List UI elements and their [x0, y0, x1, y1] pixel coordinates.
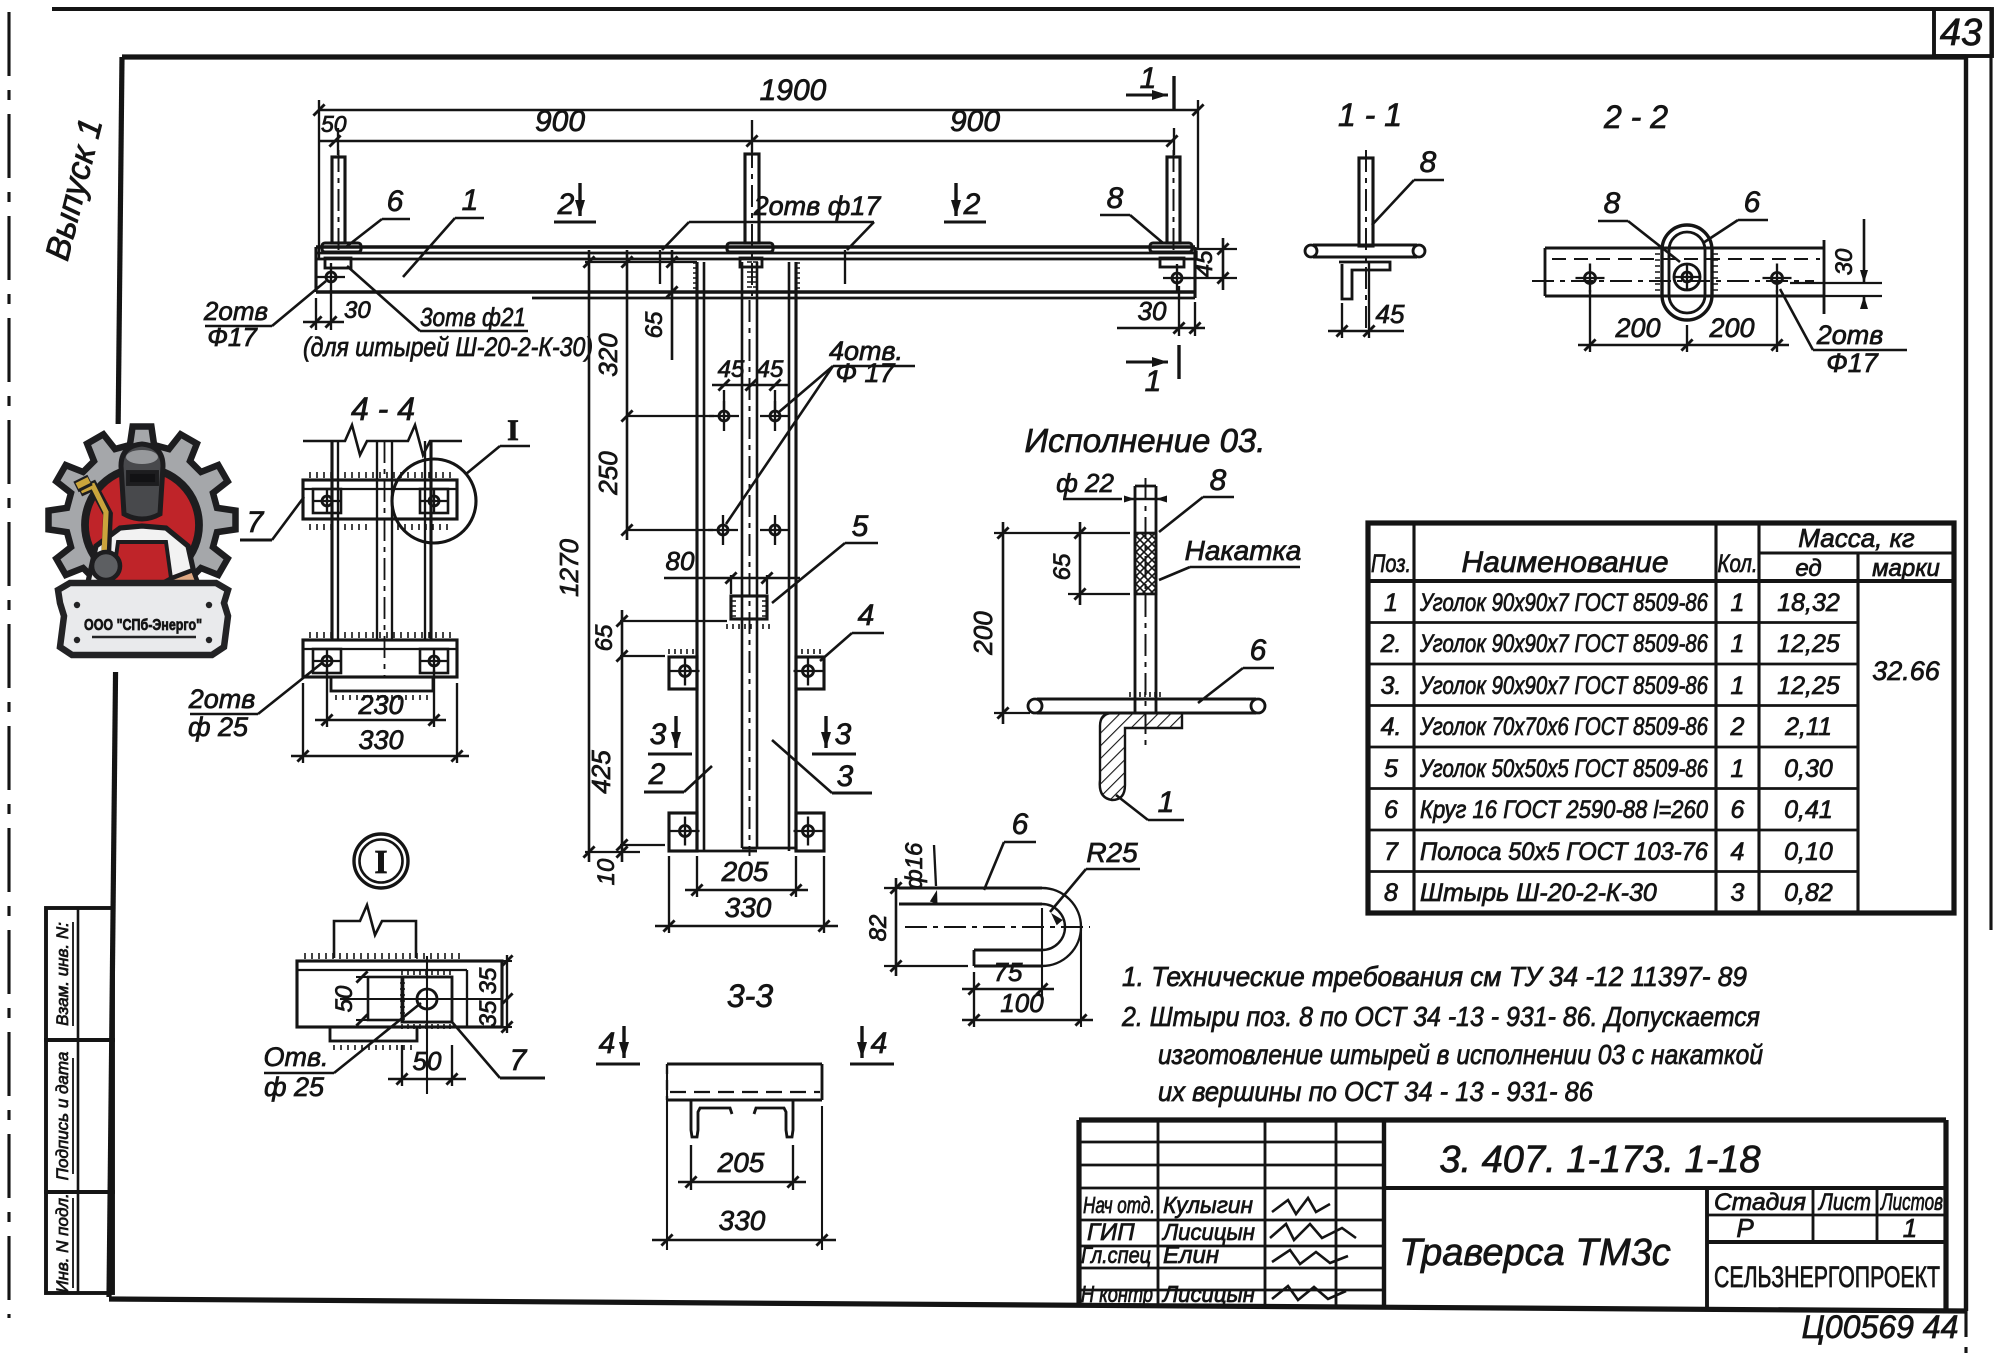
svg-text:82: 82: [865, 915, 892, 942]
dimension 330 (3-3): [666, 1070, 668, 1250]
tab right bottom: [796, 813, 824, 851]
column left angle (poz.2) verticals: [695, 262, 698, 851]
svg-text:32.66: 32.66: [1872, 656, 1941, 686]
dimension 900 left: [319, 140, 1172, 143]
dimension 200 200 (2-2): [1589, 290, 1591, 352]
svg-text:1: 1: [1145, 365, 1162, 398]
detail I left square: [368, 977, 403, 1020]
svg-text:Масса, кг: Масса, кг: [1798, 523, 1915, 553]
svg-text:900: 900: [950, 105, 1000, 138]
svg-text:1: 1: [1384, 589, 1398, 617]
holes 4otv f17 upper pair: [719, 411, 729, 421]
title block frame: [1079, 1117, 1946, 1122]
svg-text:2отв: 2отв: [1816, 320, 1884, 350]
pin (poz.8) middle: [745, 154, 759, 243]
svg-text:ф 22: ф 22: [1056, 468, 1114, 498]
section marker 4 right: [860, 1026, 863, 1058]
hole 2otv f17 left: [326, 272, 336, 282]
detail I dim 50 bottom: [401, 1045, 403, 1086]
svg-text:СЕЛЬЗНЕРГОПРОЕКТ: СЕЛЬЗНЕРГОПРОЕКТ: [1714, 1261, 1940, 1294]
dimension 330 column: [668, 856, 670, 933]
svg-text:12,25: 12,25: [1777, 630, 1840, 658]
svg-text:3: 3: [1731, 879, 1745, 907]
logo welder apron: [110, 542, 174, 600]
sheet outer border top: [52, 7, 1991, 11]
detail I lower tab: [330, 1027, 417, 1041]
hook bend: [1042, 888, 1081, 966]
4-4 upper bolt squares: [313, 489, 341, 513]
svg-text:1. Технические требования: 1. Технические требования см ТУ 34 -12 1…: [1122, 961, 1747, 992]
svg-text:Ф 17: Ф 17: [836, 358, 896, 388]
section marker 3 right: [824, 716, 827, 748]
2-2 center hole: [1674, 264, 1700, 290]
svg-text:Ф17: Ф17: [1826, 348, 1878, 378]
svg-text:6: 6: [1012, 808, 1029, 841]
svg-text:65: 65: [1049, 553, 1076, 580]
svg-text:ед: ед: [1795, 555, 1821, 582]
logo welder glove: [92, 552, 120, 580]
sheet outer border left (dash): [7, 12, 10, 1318]
svg-text:35: 35: [475, 967, 502, 994]
page number box: [1934, 9, 1992, 56]
2-2 weld serrations at keeper: [1655, 248, 1660, 290]
svg-text:1: 1: [1158, 786, 1175, 819]
1-1 rod bar: [1313, 243, 1417, 246]
svg-text:12,25: 12,25: [1777, 672, 1840, 700]
svg-text:230: 230: [357, 690, 403, 720]
svg-text:Кол.: Кол.: [1718, 550, 1758, 578]
3-3 strip plate: [667, 1062, 822, 1065]
svg-text:30: 30: [344, 297, 371, 324]
4-4 upper band (strip poz.7): [303, 480, 457, 519]
svg-text:6: 6: [1731, 796, 1745, 824]
title block left grid: [1079, 1141, 1384, 1144]
svg-text:0,41: 0,41: [1784, 796, 1833, 824]
drawing frame right: [1964, 57, 1968, 1311]
svg-text:их вершины по ОСТ 34 -: их вершины по ОСТ 34 - 13 - 931- 86: [1158, 1076, 1593, 1107]
sheet outer border right: [1989, 9, 1992, 930]
svg-text:1: 1: [1731, 672, 1745, 700]
svg-text:75: 75: [994, 957, 1023, 987]
svg-text:Кулыгин: Кулыгин: [1163, 1192, 1253, 1218]
svg-text:7: 7: [247, 506, 265, 539]
svg-text:4: 4: [1731, 838, 1745, 866]
hole f17 right: [1172, 273, 1182, 283]
dimension 30 beam right: [1178, 286, 1180, 336]
logo welder shirt: [84, 526, 200, 600]
svg-text:200: 200: [1708, 313, 1754, 343]
svg-text:1: 1: [1731, 755, 1745, 783]
svg-text:Листов: Листов: [1880, 1189, 1943, 1216]
plate poz.5 on column: [731, 596, 767, 619]
dimension chain line 320/250: [626, 250, 629, 540]
svg-text:Уголок 70х70х6 ГОСТ 8509-86: Уголок 70х70х6 ГОСТ 8509-86: [1419, 713, 1708, 741]
svg-text:ф16: ф16: [901, 842, 928, 889]
margin box Podpis i data: [46, 1040, 113, 1192]
svg-text:Наименование: Наименование: [1461, 546, 1668, 579]
03 rod bar (poz.6): [1037, 697, 1256, 700]
parts table frame: [1368, 523, 1954, 913]
svg-text:Ц00569 44: Ц00569 44: [1802, 1309, 1959, 1345]
03 angle cross-section (poz.1): [1100, 713, 1182, 800]
svg-text:2.: 2.: [1380, 630, 1402, 658]
3-3 left leg: [691, 1100, 732, 1137]
column right angle (poz.3) verticals: [788, 262, 791, 851]
svg-text:80: 80: [666, 546, 695, 576]
svg-text:10: 10: [593, 858, 620, 885]
dim 65 (03): [1068, 532, 1130, 534]
svg-text:8: 8: [1210, 464, 1227, 497]
svg-text:Поз.: Поз.: [1371, 550, 1411, 578]
svg-text:1: 1: [1903, 1213, 1917, 1243]
dimension 205 (3-3): [690, 1145, 692, 1190]
dimension 1270: [588, 250, 591, 862]
1-1 angle profile: [1339, 262, 1390, 299]
svg-text:30: 30: [1138, 296, 1167, 326]
4-4 middle pin: [376, 441, 378, 640]
svg-text:3: 3: [837, 760, 854, 793]
4-4 lower bolt squares: [313, 649, 341, 673]
dim 100 (hook): [973, 996, 975, 1027]
2-2 side holes: [1585, 273, 1596, 284]
svg-text:2: 2: [648, 758, 666, 791]
pin (poz.8) right: [1167, 157, 1180, 243]
dimension chain line 65/425/10 lower: [621, 610, 624, 862]
svg-text:Накатка: Накатка: [1185, 535, 1302, 566]
svg-text:ф 25: ф 25: [264, 1072, 325, 1102]
03 knurl section: [1135, 533, 1156, 594]
crossarm beam ends: [314, 247, 317, 292]
svg-text:Нач отд.: Нач отд.: [1083, 1192, 1155, 1218]
logo welder helmet: [121, 444, 163, 519]
svg-text:6: 6: [1744, 186, 1761, 219]
svg-text:Полоса 50х5 ГОСТ 103-76: Полоса 50х5 ГОСТ 103-76: [1420, 838, 1708, 866]
dimension 45 (1-1): [1341, 303, 1343, 338]
svg-text:Гл.спец: Гл.спец: [1081, 1242, 1151, 1268]
svg-text:65: 65: [591, 624, 618, 651]
svg-text:330: 330: [719, 1205, 766, 1236]
svg-text:1: 1: [1731, 630, 1745, 658]
svg-text:Уголок 90х90х7 ГОСТ 8509-86: Уголок 90х90х7 ГОСТ 8509-86: [1419, 672, 1708, 700]
svg-text:8: 8: [1604, 187, 1621, 220]
svg-text:3.: 3.: [1381, 672, 1402, 700]
2-2 keeper oval (poz.6): [1662, 225, 1712, 320]
svg-text:2отв: 2отв: [188, 684, 256, 714]
dimension 45 beam right: [1195, 248, 1237, 250]
svg-text:1270: 1270: [554, 539, 584, 597]
svg-text:0,82: 0,82: [1784, 879, 1833, 907]
detail I weld serration top: [305, 953, 459, 959]
detail I bubble: [354, 834, 408, 888]
svg-text:6: 6: [387, 185, 404, 218]
title block doc number cell: [1384, 1186, 1946, 1190]
svg-text:марки: марки: [1872, 555, 1940, 582]
holes 4otv f17 lower pair: [718, 525, 728, 535]
svg-text:1: 1: [1731, 589, 1745, 617]
svg-text:35: 35: [475, 1000, 502, 1027]
drawing frame bottom: [109, 1299, 1966, 1311]
svg-text:Лисицын: Лисицын: [1161, 1281, 1255, 1307]
detail I break rectangle: [334, 905, 416, 958]
svg-text:Траверса ТМ3с: Траверса ТМ3с: [1399, 1232, 1671, 1274]
svg-text:3-3: 3-3: [727, 978, 773, 1014]
svg-text:45: 45: [1191, 250, 1218, 277]
section marker 1 bottom: [1126, 360, 1168, 363]
svg-text:Лист: Лист: [1817, 1189, 1871, 1216]
svg-text:50: 50: [321, 111, 347, 137]
svg-text:6: 6: [1250, 634, 1267, 667]
svg-text:Инв. N подл.: Инв. N подл.: [53, 1193, 72, 1292]
dim 82 (hook): [884, 887, 899, 889]
column middle pin shaft: [741, 262, 744, 848]
svg-text:50: 50: [413, 1046, 442, 1076]
4-4 lower band (strip poz.7): [303, 640, 457, 677]
drawing frame top: [122, 54, 1966, 59]
1-1 pin poz.8: [1359, 158, 1373, 246]
svg-text:(для штырей Ш-20-2-К-30): (для штырей Ш-20-2-К-30): [303, 332, 593, 362]
svg-text:Исполнение 03.: Исполнение 03.: [1025, 422, 1266, 459]
svg-text:2отв ф17: 2отв ф17: [753, 191, 882, 221]
svg-text:2,11: 2,11: [1784, 713, 1832, 741]
svg-text:5: 5: [852, 510, 869, 543]
4-4 break line top: [303, 425, 462, 455]
svg-text:330: 330: [358, 725, 403, 755]
logo name plate: [58, 583, 228, 655]
drawing frame right lower dash: [1964, 1311, 1967, 1363]
svg-text:65: 65: [641, 311, 668, 338]
svg-text:3: 3: [650, 718, 667, 751]
extension lines beam dims: [318, 100, 320, 258]
tab left bottom: [669, 813, 697, 851]
svg-text:45: 45: [718, 356, 745, 383]
svg-text:425: 425: [586, 750, 616, 794]
svg-text:Круг 16 ГОСТ 2590-88 l=260: Круг 16 ГОСТ 2590-88 l=260: [1420, 796, 1708, 824]
svg-text:Штырь Ш-20-2-К-30: Штырь Ш-20-2-К-30: [1420, 879, 1657, 907]
logo white backing: [95, 424, 245, 672]
svg-text:1: 1: [462, 184, 479, 217]
detail I circle on 4-4: [392, 459, 476, 543]
svg-text:3отв ф21: 3отв ф21: [420, 302, 526, 332]
svg-text:330: 330: [725, 892, 772, 923]
svg-text:Отв.: Отв.: [263, 1042, 328, 1072]
4-4 rails: [330, 441, 333, 640]
dimension 65 top (column): [671, 250, 674, 360]
svg-text:0,30: 0,30: [1784, 755, 1833, 783]
svg-text:100: 100: [1000, 988, 1044, 1018]
svg-text:900: 900: [535, 105, 585, 138]
tab poz.4 right mid: [796, 657, 824, 689]
svg-text:1: 1: [1140, 62, 1157, 95]
svg-text:4: 4: [871, 1027, 888, 1060]
logo gear: [49, 427, 236, 614]
svg-text:3. 407. 1-173. 1-18: 3. 407. 1-173. 1-18: [1439, 1139, 1760, 1181]
svg-text:Н контр: Н контр: [1081, 1281, 1153, 1307]
section marker 2 left: [578, 183, 581, 216]
column bottom edge: [697, 850, 757, 853]
svg-text:2: 2: [557, 188, 575, 221]
dim 75 (hook): [973, 972, 975, 996]
margin box Vzam inv N: [46, 908, 113, 1040]
svg-text:2. Штыри поз. 8 по ОСТ 34: 2. Штыри поз. 8 по ОСТ 34 -13 - 931- 86.…: [1121, 1001, 1760, 1032]
2-2 strip body: [1545, 246, 1824, 249]
detail I strip plan: [297, 961, 502, 1027]
svg-text:ООО "СПб-Энерго": ООО "СПб-Энерго": [84, 617, 202, 634]
svg-text:45: 45: [757, 356, 784, 383]
svg-text:205: 205: [717, 1147, 765, 1178]
dimension 30 (2-2): [1790, 282, 1882, 284]
svg-text:4.: 4.: [1381, 713, 1402, 741]
svg-text:200: 200: [968, 611, 998, 656]
svg-text:1900: 1900: [760, 74, 827, 107]
dimension 330 (4-4): [302, 683, 304, 763]
hook top tube: [899, 886, 1042, 889]
svg-text:2: 2: [963, 188, 981, 221]
svg-text:Взам. инв. N:: Взам. инв. N:: [53, 922, 72, 1026]
section marker 2 right: [954, 183, 957, 216]
svg-text:18,32: 18,32: [1777, 589, 1840, 617]
detail I gusset square: [402, 977, 452, 1022]
svg-text:2 - 2: 2 - 2: [1603, 99, 1668, 135]
column weld serrations top: [693, 263, 698, 288]
logo welding torch: [80, 486, 108, 560]
svg-text:43: 43: [1940, 12, 1982, 54]
svg-text:4: 4: [599, 1027, 616, 1060]
title block stadia list cells: [1707, 1214, 1946, 1217]
svg-text:320: 320: [593, 333, 623, 377]
3-3 right leg: [754, 1100, 793, 1137]
hook bottom tube: [974, 948, 1042, 951]
svg-text:Елин: Елин: [1163, 1242, 1219, 1269]
hook centerlines: [905, 926, 1090, 928]
svg-text:45: 45: [1376, 299, 1405, 329]
title block name cell: [1705, 1188, 1709, 1309]
logo welder forearm: [120, 570, 200, 612]
tab poz.4 left mid: [669, 657, 697, 689]
logo red circle: [85, 468, 199, 582]
svg-text:3: 3: [835, 718, 852, 751]
03 pin shaft: [1134, 486, 1137, 713]
svg-text:4 - 4: 4 - 4: [351, 391, 415, 427]
svg-text:4: 4: [858, 599, 875, 632]
svg-text:8: 8: [1107, 182, 1124, 215]
pin (poz.8) left: [332, 157, 345, 243]
svg-text:250: 250: [593, 451, 623, 496]
4-4 bottom tab: [331, 677, 433, 691]
svg-text:Уголок 50х50х5 ГОСТ 8509-86: Уголок 50х50х5 ГОСТ 8509-86: [1419, 755, 1708, 783]
detail I dims 35 35: [502, 960, 512, 962]
svg-text:205: 205: [721, 856, 769, 887]
crossarm beam bottom edge: [316, 290, 1195, 293]
svg-text:5: 5: [1384, 755, 1398, 783]
svg-text:изготовление штырей в испол: изготовление штырей в исполнении 03 с на…: [1158, 1039, 1763, 1070]
dimension 1900: [319, 109, 1198, 112]
drawing frame left: [109, 57, 122, 1297]
svg-text:I: I: [374, 844, 387, 881]
svg-text:0,10: 0,10: [1784, 838, 1833, 866]
signatures: [1272, 1198, 1330, 1214]
svg-text:I: I: [507, 414, 519, 447]
column left dimension chain extensions: [585, 261, 697, 263]
detail I dim 50 vertical: [356, 976, 368, 978]
dimension 30 left: [315, 298, 317, 330]
svg-text:Подпись и дата: Подпись и дата: [53, 1052, 72, 1181]
hidden hole lines middle: [659, 250, 661, 284]
crossarm beam (poz.1) top flange: [316, 245, 1195, 248]
svg-text:Уголок 90х90х7 ГОСТ 8509-86: Уголок 90х90х7 ГОСТ 8509-86: [1419, 589, 1708, 617]
svg-text:50: 50: [331, 985, 358, 1012]
svg-text:8: 8: [1384, 879, 1398, 907]
svg-text:R25: R25: [1086, 837, 1138, 868]
dim 200 (03): [994, 532, 1068, 534]
svg-text:1 - 1: 1 - 1: [1338, 97, 1402, 133]
svg-text:2: 2: [1730, 713, 1745, 741]
svg-text:8: 8: [1420, 146, 1437, 179]
svg-text:Уголок 90х90х7 ГОСТ 8509-86: Уголок 90х90х7 ГОСТ 8509-86: [1419, 630, 1708, 658]
svg-text:7: 7: [1384, 838, 1399, 866]
margin box Inv N podl: [46, 1192, 113, 1293]
svg-text:Р: Р: [1736, 1213, 1754, 1243]
svg-text:Стадия: Стадия: [1714, 1189, 1806, 1216]
svg-text:30: 30: [1831, 248, 1858, 275]
svg-text:7: 7: [510, 1044, 528, 1077]
dimension 80 plate: [730, 575, 732, 594]
svg-text:200: 200: [1614, 313, 1660, 343]
detail I hole f25: [417, 989, 437, 1009]
svg-text:ф 25: ф 25: [188, 712, 249, 742]
dimension 230 (4-4): [326, 670, 328, 727]
svg-text:6: 6: [1384, 796, 1398, 824]
dimension 45 45 holes: [723, 390, 725, 410]
dimension 205 column: [696, 856, 698, 897]
